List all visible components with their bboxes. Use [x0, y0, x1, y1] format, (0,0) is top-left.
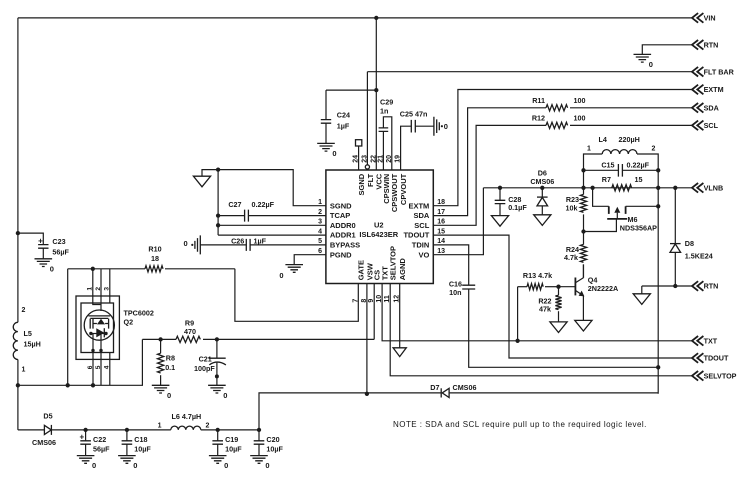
svg-text:FLT BAR: FLT BAR [704, 67, 735, 76]
svg-text:17: 17 [437, 209, 445, 216]
node D8 junction [673, 186, 677, 190]
svg-text:0: 0 [184, 239, 188, 248]
svg-text:L6 4.7µH: L6 4.7µH [172, 412, 202, 421]
svg-text:R11: R11 [532, 96, 545, 105]
svg-text:4.7k: 4.7k [564, 253, 578, 262]
connector TXT [692, 336, 703, 346]
svg-text:6: 6 [87, 365, 94, 369]
svg-text:220µH: 220µH [619, 135, 640, 144]
svg-text:ADDR1: ADDR1 [330, 231, 356, 240]
svg-text:1.5KE24: 1.5KE24 [685, 251, 713, 260]
svg-text:0: 0 [167, 391, 171, 400]
svg-text:ADDR0: ADDR0 [330, 221, 356, 230]
svg-text:EXTM: EXTM [408, 201, 429, 210]
svg-text:2: 2 [95, 287, 102, 291]
wire SCL net: pin 16 to R12 [433, 125, 546, 225]
resistor R23 10k [583, 188, 585, 195]
wire input branch to Q2 [68, 268, 145, 270]
svg-text:0: 0 [444, 122, 448, 131]
ground earth C18 [118, 456, 136, 464]
node M6 source junction [590, 186, 594, 190]
node R13-TXT junction [515, 339, 519, 343]
svg-text:15: 15 [635, 175, 643, 184]
svg-text:0: 0 [279, 271, 283, 280]
svg-text:C15: C15 [601, 161, 614, 170]
resistor R24 4.7k [583, 232, 585, 245]
capacitor C26 1uF [246, 239, 250, 251]
svg-text:CMS06: CMS06 [530, 177, 554, 186]
wire Q2 source line [18, 339, 142, 385]
node C28 junction [498, 186, 502, 190]
capacitor C22 56uF [85, 430, 87, 441]
resistor R9 470 [176, 336, 200, 342]
wire RTN mid rail [642, 285, 692, 287]
inductor L4 220uH [584, 154, 603, 188]
wire AGND pin 12 [399, 284, 401, 348]
svg-text:0: 0 [50, 264, 54, 273]
wire Q2 pin 5 [100, 334, 102, 386]
wire bottom rail to D5 [18, 429, 45, 431]
svg-text:56µF: 56µF [52, 247, 69, 256]
svg-text:VLNB: VLNB [704, 184, 724, 193]
svg-text:100pF: 100pF [194, 364, 215, 373]
connector FLT BAR [692, 67, 703, 77]
resistor R7 15 [612, 185, 632, 191]
svg-text:U2: U2 [374, 221, 384, 230]
wire pin 19 CPVOUT to C25 [401, 126, 412, 170]
svg-text:SDA: SDA [413, 211, 429, 220]
svg-text:SELVTOP: SELVTOP [389, 246, 398, 280]
capacitor C21 100pF [216, 339, 218, 358]
node R23 junction [581, 186, 585, 190]
wire bottom rail [86, 429, 171, 431]
ground earth C23 [35, 259, 53, 267]
wire VIN left vertical [17, 18, 19, 322]
connector VIN [692, 13, 703, 23]
svg-text:C25 47n: C25 47n [400, 109, 428, 118]
connector EXTM [692, 85, 703, 95]
wire VSW net pin 8 down [366, 284, 368, 394]
node TDIN sense junction [656, 365, 660, 369]
svg-text:4: 4 [103, 365, 110, 369]
svg-text:EXTM: EXTM [704, 85, 724, 94]
ground triangle AGND [393, 348, 406, 357]
svg-text:24: 24 [353, 155, 360, 163]
svg-text:2: 2 [206, 422, 210, 429]
wire RTN top stub [642, 45, 691, 55]
svg-text:VO: VO [418, 250, 429, 259]
wire Q2 pin 3 [109, 269, 111, 303]
node D6 junction [540, 186, 544, 190]
svg-text:TDIN: TDIN [412, 241, 430, 250]
svg-text:16: 16 [437, 219, 445, 226]
svg-text:TPC6002: TPC6002 [124, 308, 154, 317]
connector RTN [692, 40, 703, 50]
svg-text:2: 2 [318, 209, 322, 216]
connector RTN mid [692, 281, 703, 291]
svg-text:10µF: 10µF [134, 444, 151, 453]
svg-text:14: 14 [437, 238, 445, 245]
node C20 junction [257, 428, 261, 432]
inductor L5 15uH [13, 322, 18, 359]
node M6 gate / R24 junction [581, 229, 585, 233]
wire Q4 base [559, 286, 576, 288]
diode D7 CMS06 [440, 388, 442, 397]
svg-text:ISL6423ER: ISL6423ER [359, 230, 398, 239]
svg-text:0: 0 [265, 461, 269, 470]
ground earth C20 [250, 456, 268, 464]
svg-text:1: 1 [587, 146, 591, 153]
ground earth C24 [317, 143, 335, 151]
ground triangle Q4 emitter [575, 320, 592, 331]
svg-text:56µF: 56µF [93, 444, 110, 453]
wire TDIN net pin 14 to C16 [433, 245, 468, 285]
svg-text:C26: C26 [231, 236, 244, 245]
resistor R10 18 [145, 266, 163, 272]
wire EXTM net: pin 18 to rail [433, 90, 691, 206]
wire CS sense line [142, 338, 176, 340]
capacitor C18 10uF [126, 430, 128, 441]
svg-text:15: 15 [437, 228, 445, 235]
svg-text:0: 0 [223, 391, 227, 400]
connector SCL [692, 121, 703, 131]
wire VCC to C24 [326, 89, 376, 91]
capacitor C28 0.1uF [499, 188, 501, 201]
svg-text:CMS06: CMS06 [453, 383, 477, 392]
svg-text:5: 5 [95, 365, 102, 369]
svg-text:0.1: 0.1 [165, 363, 175, 372]
wire FLT BAR rail [367, 71, 691, 73]
wire SGND net pin 1 [202, 170, 326, 206]
ground triangle D6 [534, 215, 551, 226]
wire VCC: VIN down to pin 22 [375, 18, 377, 170]
svg-text:NDS356AP: NDS356AP [620, 224, 657, 233]
resistor R13 4.7k [518, 286, 527, 288]
node VSW-D7 junction [365, 392, 369, 396]
svg-text:19: 19 [395, 155, 402, 163]
wire VIN rail top [18, 17, 692, 19]
svg-text:TDOUT: TDOUT [403, 231, 429, 240]
node C21 junction [215, 337, 219, 341]
svg-text:0: 0 [224, 461, 228, 470]
svg-text:1: 1 [158, 422, 162, 429]
capacitor C16 10n [462, 285, 475, 289]
svg-text:CPVOUT: CPVOUT [399, 173, 408, 205]
svg-text:13: 13 [437, 248, 445, 255]
svg-text:21: 21 [377, 155, 384, 163]
svg-text:3: 3 [104, 287, 111, 291]
svg-text:R10: R10 [148, 245, 161, 254]
node C23 junction [16, 231, 20, 235]
svg-text:C29: C29 [380, 98, 393, 107]
svg-text:PGND: PGND [330, 250, 352, 259]
svg-text:RTN: RTN [704, 282, 719, 291]
svg-text:100: 100 [574, 114, 586, 123]
svg-text:15µH: 15µH [24, 340, 41, 349]
svg-text:0: 0 [92, 461, 96, 470]
svg-text:D7: D7 [430, 383, 439, 392]
node D8-RTN junction [673, 284, 677, 288]
svg-text:22: 22 [370, 155, 377, 163]
svg-text:100: 100 [574, 96, 586, 105]
svg-text:R12: R12 [532, 114, 545, 123]
wire SGND branch vertical [217, 170, 219, 236]
wire SELVTOP net pin 11 [390, 284, 691, 376]
svg-text:0.22µF: 0.22µF [627, 161, 650, 170]
ground triangle C28 [491, 216, 508, 227]
wire ADDR1 pin 4 [218, 234, 326, 236]
svg-text:SCL: SCL [704, 121, 719, 130]
svg-text:2N2222A: 2N2222A [588, 284, 618, 293]
capacitor C29 1n between pin 21 and pin 20 [382, 131, 384, 170]
capacitor C25 47n [411, 120, 415, 133]
svg-text:C20: C20 [266, 435, 279, 444]
svg-text:SELVTOP: SELVTOP [704, 372, 737, 381]
svg-text:470: 470 [184, 327, 196, 336]
wire R13 down to TXT net [517, 287, 519, 341]
testpoint square pin 24 SGND [356, 140, 362, 146]
node VIN junction to VCC branch [374, 16, 378, 20]
node Q2 source junctions [16, 383, 20, 387]
resistor R22 47k [558, 287, 560, 296]
resistor R11 100 [546, 105, 568, 111]
node Q4 base junction [556, 285, 560, 289]
ground bar C26 [195, 235, 200, 254]
ground triangle RTN mid [641, 286, 643, 294]
wire Q2 pin 2 [100, 269, 102, 311]
svg-text:4: 4 [318, 228, 322, 235]
svg-text:0.22µF: 0.22µF [252, 200, 275, 209]
capacitor C24 1uF [325, 90, 327, 120]
wire pin 23 FLT from FLT BAR rail [366, 72, 368, 165]
svg-text:BYPASS: BYPASS [330, 241, 360, 250]
svg-text:D8: D8 [685, 239, 694, 248]
wire Q2 pin 1 [93, 269, 101, 305]
wire PGND pin 6 [294, 255, 326, 265]
svg-text:10µF: 10µF [225, 444, 242, 453]
ground earth C19 [209, 456, 227, 464]
svg-text:3: 3 [318, 219, 322, 226]
svg-text:1µF: 1µF [337, 121, 350, 130]
node SGND branch [216, 167, 220, 171]
svg-text:AGND: AGND [398, 258, 407, 281]
svg-text:SDA: SDA [704, 104, 719, 113]
connector SELVTOP [692, 371, 703, 381]
svg-text:10n: 10n [449, 288, 461, 297]
node R8 junction [158, 337, 162, 341]
svg-text:0.1µF: 0.1µF [508, 203, 527, 212]
op-amp U2 ISL6423ER body [326, 170, 433, 284]
ground earth RTN top [634, 54, 652, 62]
wire SDA net: pin 17 to R11 [433, 108, 546, 216]
node Q2 drain junction [91, 267, 95, 271]
svg-text:10µF: 10µF [266, 444, 283, 453]
svg-text:1: 1 [22, 366, 26, 373]
svg-text:M6: M6 [628, 215, 638, 224]
svg-text:0: 0 [133, 461, 137, 470]
capacitor C19 10uF [217, 430, 219, 441]
svg-text:SCL: SCL [414, 221, 429, 230]
svg-text:18: 18 [437, 199, 445, 206]
svg-text:C23: C23 [52, 237, 65, 246]
svg-text:C19: C19 [225, 435, 238, 444]
wire ADDR0 pin 3 [218, 224, 326, 226]
node C19 junction [216, 428, 220, 432]
capacitor C15 0.22uF [584, 169, 619, 171]
wire pin 24 SGND stub [358, 146, 360, 170]
svg-text:1µF: 1µF [254, 236, 267, 245]
ground triangle R22 [550, 322, 567, 333]
wire VO pin 13 up to VLNB rail [433, 188, 483, 255]
node VCC-C24 junction [374, 88, 378, 92]
wire SDA to connector [570, 107, 692, 109]
svg-text:FLT: FLT [366, 173, 375, 187]
diode D5 CMS06 [44, 425, 51, 434]
node ADDR0 branch [216, 223, 220, 227]
transistor M6 NDS356AP [593, 188, 609, 207]
inversion bubble pin 23 FLT [365, 165, 369, 169]
connector SDA [692, 103, 703, 113]
wire Q2 pin 4 [109, 353, 111, 386]
transistor Q2 TPC6002 package [76, 296, 119, 359]
svg-text:10k: 10k [566, 204, 578, 213]
ground earth C22 [77, 456, 95, 464]
wire CS net pin 9 [373, 284, 375, 340]
svg-text:C27: C27 [228, 200, 241, 209]
transistor Q4 2N2222A [574, 278, 576, 296]
capacitor C27 0.22uF [245, 210, 249, 222]
node L4 right junction [656, 186, 660, 190]
svg-text:20: 20 [386, 155, 393, 163]
svg-text:2: 2 [22, 307, 26, 314]
svg-text:18: 18 [151, 254, 159, 263]
wire VLNB vertical to D7 [657, 188, 659, 394]
diode D6 CMS06 [541, 188, 543, 197]
svg-text:1: 1 [87, 287, 94, 291]
svg-text:1n: 1n [380, 107, 388, 116]
svg-text:SGND: SGND [330, 201, 352, 210]
wire Q2 pin 6 [92, 334, 94, 386]
resistor R12 100 [546, 122, 568, 128]
wire TDOUT net pin 15 [433, 235, 691, 358]
svg-text:TDOUT: TDOUT [704, 354, 729, 363]
wire GATE net pin 7 to R10 [235, 269, 358, 322]
wire TXT net pin 10 [382, 284, 691, 341]
svg-text:C22: C22 [93, 435, 106, 444]
svg-text:2: 2 [652, 146, 656, 153]
svg-text:1: 1 [318, 199, 322, 206]
svg-text:L5: L5 [24, 329, 32, 338]
wire C16 to VLNB sense vertical [469, 289, 659, 367]
svg-text:CPSWOUT: CPSWOUT [390, 173, 399, 212]
capacitor C20 10uF [258, 430, 260, 441]
svg-text:23: 23 [361, 155, 368, 163]
svg-text:TCAP: TCAP [330, 211, 350, 220]
ground earth C21 [208, 385, 226, 393]
svg-text:R7: R7 [602, 175, 611, 184]
svg-text:+: + [80, 432, 85, 441]
svg-text:C18: C18 [134, 435, 147, 444]
svg-text:RTN: RTN [704, 41, 719, 50]
wire BYPASS to C26 [200, 244, 246, 246]
transistor Q2 internal symbol [88, 315, 110, 317]
wire TCAP to C27 [218, 215, 245, 217]
svg-text:0: 0 [332, 149, 336, 158]
svg-text:C21: C21 [199, 354, 212, 363]
connector TDOUT [692, 353, 703, 363]
svg-text:VIN: VIN [704, 14, 716, 23]
svg-text:Q2: Q2 [124, 318, 134, 327]
svg-text:L4: L4 [599, 135, 607, 144]
diode D8 1.5KE24 [674, 188, 676, 244]
svg-text:5: 5 [318, 238, 322, 245]
svg-text:47k: 47k [539, 305, 551, 314]
svg-text:TXT: TXT [704, 337, 718, 346]
node M6 drain junction [656, 204, 660, 208]
svg-text:R13 4.7k: R13 4.7k [523, 271, 552, 280]
wire SCL to connector [570, 124, 692, 126]
capacitor C23 56uF [18, 233, 43, 245]
svg-text:6: 6 [318, 248, 322, 255]
connector VLNB [692, 183, 703, 193]
ground triangle SGND [193, 176, 210, 187]
svg-text:0: 0 [649, 60, 653, 69]
svg-text:R8: R8 [166, 354, 175, 363]
ground bar C25 [434, 117, 439, 136]
svg-text:CMS06: CMS06 [32, 438, 56, 447]
node C18 junction [125, 428, 129, 432]
wire VLNB rail [483, 187, 691, 189]
node C22 junction [83, 428, 87, 432]
wire Q2 left leg [67, 269, 69, 386]
ground earth R8 [152, 385, 170, 393]
svg-text:NOTE : SDA and SCL require pul: NOTE : SDA and SCL require pull up to th… [393, 420, 647, 429]
inductor L6 4.7uH [171, 426, 201, 430]
svg-text:D5: D5 [43, 412, 52, 421]
wire C20 node up to D7 line [259, 393, 441, 430]
svg-text:SGND: SGND [357, 173, 366, 195]
svg-text:C24: C24 [337, 110, 350, 119]
ground earth PGND [285, 265, 303, 273]
node TCAP branch [216, 213, 220, 217]
resistor R8 0.1 [160, 339, 162, 353]
svg-text:+: + [38, 237, 43, 246]
wire L5 bottom [17, 360, 19, 430]
